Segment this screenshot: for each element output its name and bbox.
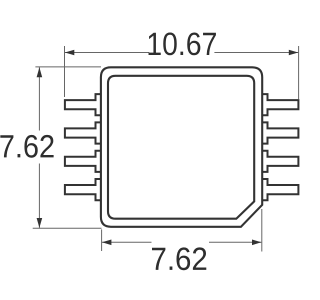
top dimension text 10.67	[149, 33, 216, 56]
top dimension arrowhead right	[289, 50, 298, 56]
lead pin 1 left	[65, 94, 101, 115]
left dimension extension line bottom	[33, 227, 102, 229]
lead pin 4 left	[65, 179, 101, 200]
lead pin 5 right	[262, 94, 298, 115]
top dimension extension line left	[64, 46, 66, 97]
left dimension extension line top	[35, 66, 101, 68]
top dimension line	[65, 52, 149, 54]
bottom dimension extension line right	[261, 209, 263, 252]
left dimension arrowhead bottom	[37, 218, 43, 228]
lead pin 2 left	[65, 122, 101, 143]
bottom dimension extension line left	[101, 229, 103, 251]
left dimension line	[38, 67, 40, 130]
left dimension text 7.62	[0, 135, 53, 158]
lead pin 3 left	[65, 151, 101, 172]
lead pin 8 right	[262, 179, 298, 200]
bottom dimension text 7.62	[152, 247, 206, 270]
top dimension extension line right	[298, 46, 300, 99]
package body outer outline	[101, 67, 262, 227]
lead pin 6 right	[262, 122, 298, 143]
lead pin 7 right	[262, 151, 298, 172]
bottom dimension arrowhead right	[252, 240, 261, 246]
package body inner outline	[108, 76, 254, 219]
bottom dimension arrowhead left	[102, 240, 111, 246]
top dimension arrowhead left	[65, 50, 74, 56]
left dimension arrowhead top	[37, 67, 43, 77]
bottom dimension line	[102, 241, 152, 243]
